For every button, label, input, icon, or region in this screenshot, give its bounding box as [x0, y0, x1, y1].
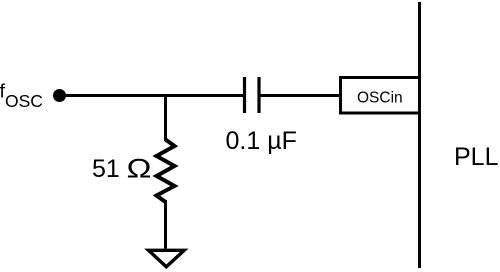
wire [259, 94, 341, 97]
ground [149, 250, 185, 266]
svg-text:OSCin: OSCin [357, 90, 403, 107]
svg-text:0.1 µF: 0.1 µF [226, 127, 297, 155]
pin box OSCin [341, 78, 420, 114]
value label 51 Ohm [92, 153, 152, 183]
svg-text:51: 51 [92, 155, 120, 183]
svg-text:Ω: Ω [127, 153, 152, 183]
PLL boundary line [418, 2, 421, 268]
svg-text:OSC: OSC [5, 91, 43, 111]
wire [60, 94, 245, 97]
label fOSC [0, 81, 43, 112]
wire [164, 94, 167, 141]
wire [164, 200, 167, 250]
node fOSC terminal [53, 89, 66, 102]
resistor 51 Ohm [157, 140, 175, 203]
capacitor 0.1 uF [245, 77, 260, 113]
svg-text:PLL: PLL [454, 143, 499, 171]
